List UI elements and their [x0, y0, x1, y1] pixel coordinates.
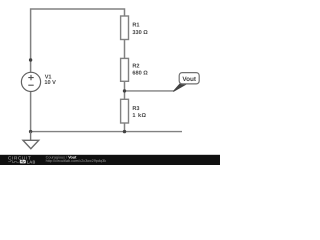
node dot: R3 bottom junction	[123, 130, 126, 133]
node dot: bottom-left junction	[29, 130, 32, 133]
svg-text:330 Ω: 330 Ω	[132, 30, 148, 36]
wire: R1 to R2	[124, 40, 126, 59]
logo waveform	[8, 161, 19, 163]
voltage source V1	[21, 72, 40, 91]
node label Vout (flag)	[173, 73, 199, 92]
svg-text:1 kΩ: 1 kΩ	[132, 112, 146, 119]
watermark bar	[0, 155, 220, 165]
resistor R3	[121, 99, 129, 123]
svg-text:10 V: 10 V	[44, 80, 56, 86]
svg-text:LAB: LAB	[27, 159, 36, 164]
wire: Vout tap	[125, 90, 174, 92]
node dot: R2-R3 junction	[123, 89, 126, 92]
ground	[23, 132, 39, 149]
wire: V1 bottom lead	[30, 92, 32, 132]
svg-text:http://circuitlab.com/c2c3ee29: http://circuitlab.com/c2c3ee29pdq3k	[46, 159, 107, 163]
svg-text:R3: R3	[132, 106, 139, 112]
svg-text:R1: R1	[132, 23, 139, 29]
svg-text:680 Ω: 680 Ω	[132, 71, 148, 77]
node dot: V1 top terminal	[29, 58, 32, 61]
resistor R1	[121, 16, 129, 40]
svg-text:R2: R2	[132, 63, 139, 69]
wire: R2 to R3	[124, 81, 126, 99]
wire: R3 to bottom rail	[124, 123, 126, 132]
wire bottom: ground rail	[31, 131, 182, 133]
wire top: V1 top to R1 top	[31, 9, 125, 72]
svg-text:Vout: Vout	[182, 76, 197, 83]
resistor R2	[121, 58, 129, 81]
